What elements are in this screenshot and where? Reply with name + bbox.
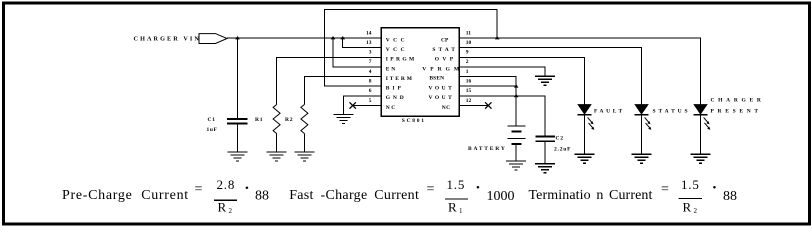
svg-text:FAULT: FAULT [594,109,625,115]
ground below R2 [294,152,314,161]
svg-text:13: 13 [366,40,372,46]
wire to pin 13 VCC [343,38,382,48]
svg-text:CP: CP [441,37,449,43]
formula 1 fraction bar [214,199,237,201]
CHARGER PRESENT label [711,98,765,115]
svg-text:3: 3 [369,50,372,56]
wire pin 15 VOUT to C2 [459,96,545,137]
svg-text:=: = [661,182,669,197]
svg-text:R1: R1 [255,117,263,123]
svg-text:6: 6 [369,88,372,94]
svg-text:1uF: 1uF [207,127,218,133]
svg-text:NC: NC [386,105,397,111]
svg-text:1: 1 [459,207,463,215]
svg-text:1.5: 1.5 [681,177,700,192]
wire pin 9 OVP to FAULT LED [459,57,584,104]
junction dot VCC pin13 tap [340,36,345,39]
no-connect X pin 5 [350,102,356,108]
svg-text:GND: GND [386,95,407,101]
ground below R1 [267,152,287,161]
ground below LED D3 [691,154,711,163]
junction dot C1 tap [235,36,240,39]
formula 1: Pre-Charge Current [62,177,269,215]
svg-text:88: 88 [255,189,269,204]
svg-text:2.2uF: 2.2uF [554,146,571,152]
svg-text:R: R [683,200,692,215]
node CHARGER VIN flag symbol [199,34,227,44]
C2 value label [554,136,571,153]
resistor R2 top lead and wire to pin 4 ITERM [304,77,381,105]
svg-text:BATTERY: BATTERY [468,146,507,152]
battery BT1 plates [508,126,526,144]
resistor R1 top lead and wire to pin 3 IPRGM [277,57,382,104]
wire pin 16 VOUT [459,85,516,87]
ground below C1 [228,152,248,161]
LED D1 cathode lead [584,115,586,155]
IC pin numbers left [366,30,372,104]
ground at pin 2 [535,76,555,85]
capacitor C1 plates [227,119,248,124]
svg-text:VCC: VCC [386,37,408,43]
svg-text:4: 4 [369,69,372,75]
resistor R2 body [301,105,308,134]
formula 3 fraction bar [678,198,702,200]
svg-text:15: 15 [466,88,472,94]
ground below pin 6 [334,115,354,124]
svg-text:VOUT: VOUT [429,95,455,101]
resistor R2 bottom lead [303,134,305,153]
junction dot pin15 crossing battery rail [514,94,519,97]
svg-text:2: 2 [466,59,469,65]
IC U1 SC801 body [381,28,459,117]
wire pin 12 NC stub [459,105,488,107]
ground below LED D2 [632,154,652,163]
svg-text:=: = [195,182,203,197]
junction dot EN tap [331,36,336,39]
wire pin 1 BSEN down to battery [459,77,516,126]
ground below LED D1 [575,154,595,163]
svg-text:OVP: OVP [435,57,457,63]
svg-text:IPRGM: IPRGM [386,57,417,63]
wire VIN to pin 14 VCC [227,37,381,39]
svg-text:CHARGER: CHARGER [711,98,765,104]
svg-text:BSEN: BSEN [429,76,444,82]
junction dot pin16 to battery rail [514,84,519,87]
svg-text:R: R [218,200,227,215]
LED D2 cathode lead [641,115,643,155]
battery bottom lead [515,144,517,161]
wire to pin 7 EN [333,38,381,67]
svg-text:2: 2 [694,207,698,215]
svg-text:•: • [713,182,717,194]
LED D3 CHARGER PRESENT [694,105,711,130]
svg-text:88: 88 [723,189,737,204]
svg-text:STAT: STAT [432,47,458,53]
svg-text:CHARGER VIN: CHARGER VIN [134,36,202,43]
wire pin 5 NC stub [353,105,382,107]
svg-text:STATUS: STATUS [653,109,691,115]
wire pin 6 GND to ground [344,96,382,115]
formula 3: Termination Current [529,177,738,215]
svg-text:=: = [427,182,435,197]
capacitor C2 plates [536,137,556,142]
svg-text:PRESENT: PRESENT [711,109,762,115]
svg-text:11: 11 [466,30,471,36]
svg-text:R2: R2 [285,117,293,123]
wire pin 10 STAT to STATUS LED [459,48,641,105]
svg-text:1: 1 [466,69,469,75]
svg-text:SC801: SC801 [402,118,426,124]
svg-text:VPRGM: VPRGM [422,66,463,72]
svg-text:C2: C2 [556,136,564,142]
svg-text:9: 9 [466,50,469,56]
svg-text:12: 12 [466,98,472,104]
svg-text:VCC: VCC [386,47,408,53]
capacitor C1 bottom lead [237,124,239,152]
ground below battery [506,161,526,170]
svg-text:2: 2 [229,207,233,215]
svg-text:C1: C1 [208,117,216,123]
LED D3 cathode lead [700,115,702,155]
svg-text:16: 16 [466,79,472,85]
IC pin names left column [386,37,417,111]
formula 2 fraction bar [445,198,468,200]
svg-text:EN: EN [386,66,397,72]
svg-text:7: 7 [369,59,372,65]
capacitor C1 top lead [237,38,239,119]
svg-text:NC: NC [442,105,451,111]
wire pin 11 CP to CHARGER PRESENT LED [459,38,700,105]
svg-text:Terminatio n Current: Terminatio n Current [529,188,653,203]
svg-text:ITERM: ITERM [386,76,414,82]
C1 value label [207,117,218,133]
wire top loop pin 8 BIP to pin 11 CP [324,9,497,86]
resistor R1 body [273,105,280,134]
svg-text:8: 8 [369,79,372,85]
resistor R1 bottom lead [276,134,278,153]
LED D1 FAULT [578,105,595,130]
svg-text:Pre-Charge Current: Pre-Charge Current [62,188,189,203]
LED D2 STATUS [635,105,652,130]
svg-text:2.8: 2.8 [217,177,236,192]
svg-text:5: 5 [369,98,372,104]
svg-text:VOUT: VOUT [429,86,455,92]
formula 2: Fast-Charge Current [289,177,514,215]
junction dot top loop to pin11 wire [495,36,500,39]
svg-text:1.5: 1.5 [447,177,466,192]
svg-text:Fast -Charge Current: Fast -Charge Current [289,188,419,203]
svg-text:BIP: BIP [386,86,404,92]
IC pin names right column [422,37,463,111]
capacitor C2 bottom lead [544,141,546,163]
svg-text:14: 14 [366,30,372,36]
svg-text:10: 10 [466,40,472,46]
no-connect X pin 12 [485,102,491,108]
svg-text:R: R [448,200,457,215]
ground below C2 [535,164,555,173]
svg-text:•: • [245,183,249,195]
svg-text:1000: 1000 [487,189,515,204]
IC pin numbers right [466,30,472,104]
svg-text:•: • [476,182,480,194]
wire pin 2 VPRGM to ground [459,67,545,76]
